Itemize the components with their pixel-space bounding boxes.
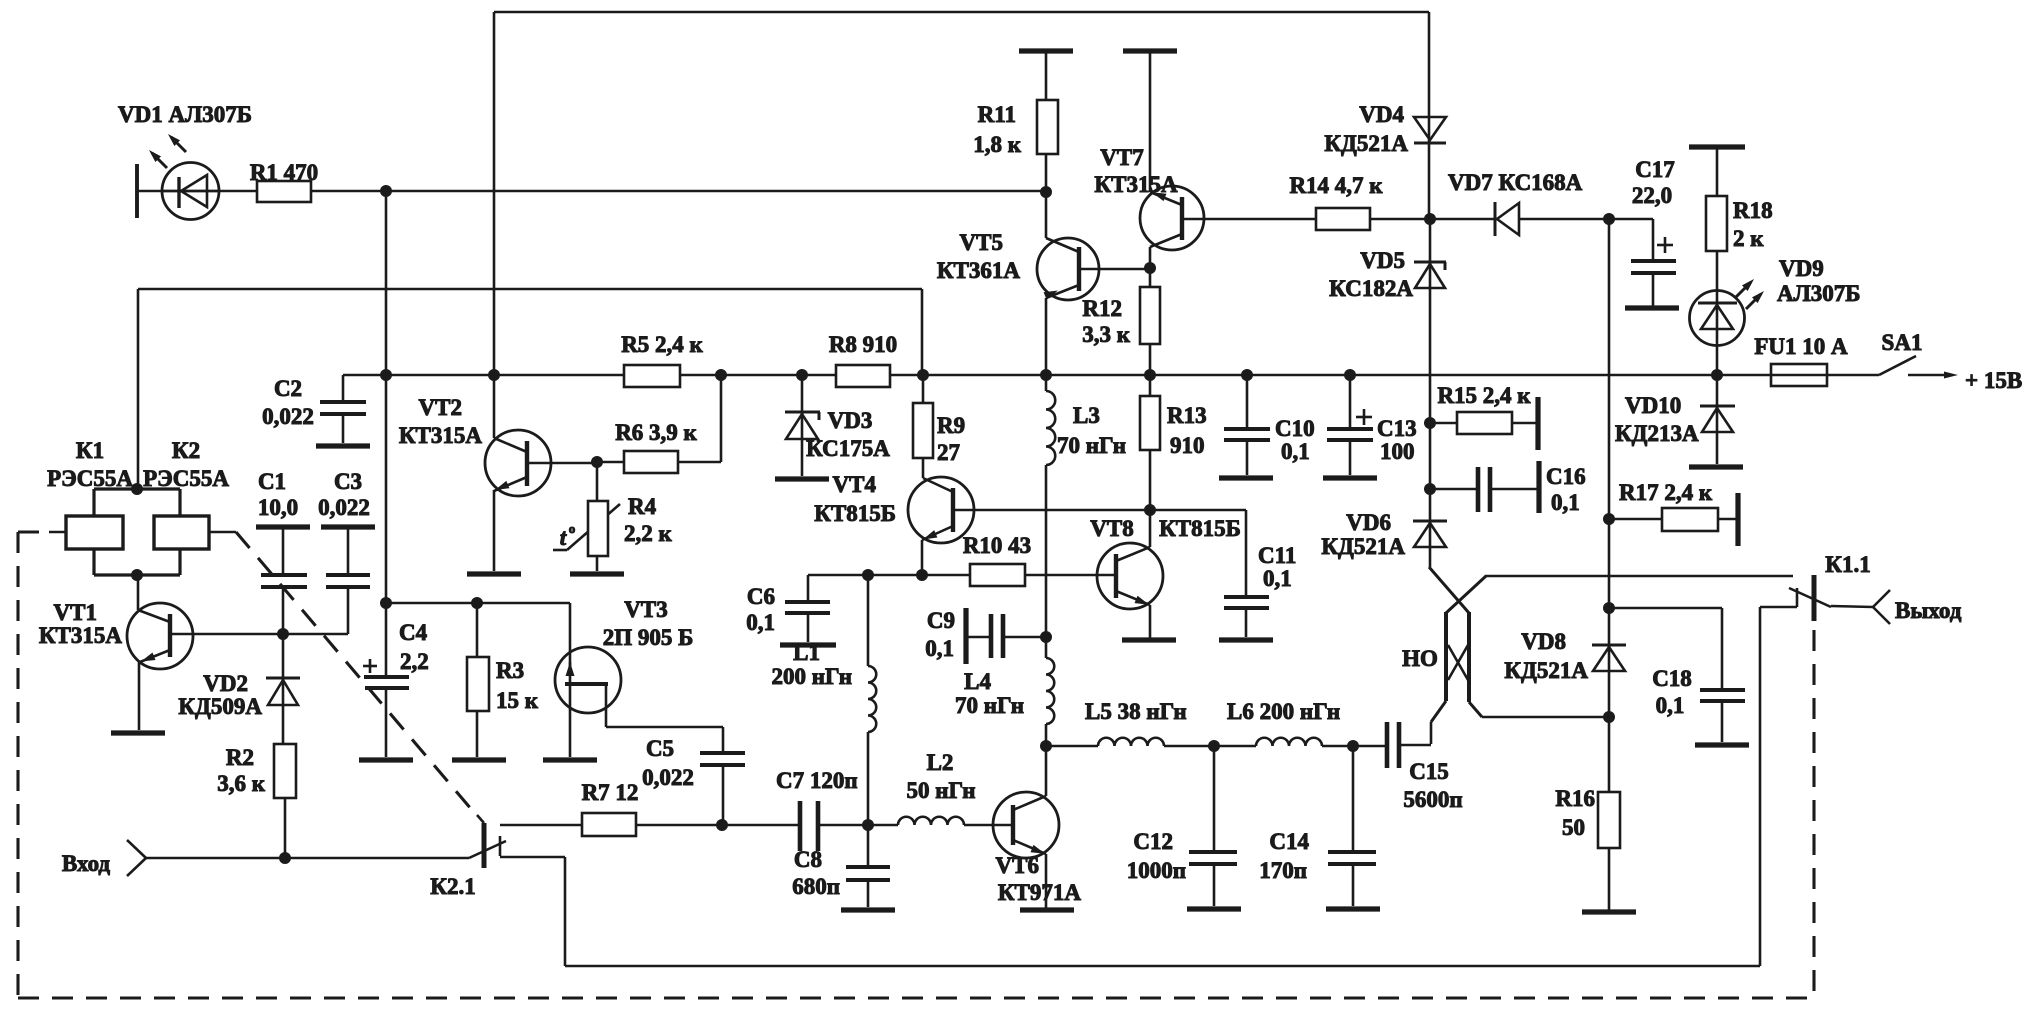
svg-text:VD9: VD9	[1779, 256, 1824, 281]
svg-text:КТ815Б: КТ815Б	[1159, 516, 1241, 541]
svg-text:VT1: VT1	[54, 600, 97, 625]
svg-text:КТ315А: КТ315А	[39, 623, 123, 648]
svg-text:VD5: VD5	[1360, 248, 1405, 273]
svg-text:R14 4,7 к: R14 4,7 к	[1289, 173, 1383, 198]
svg-text:R17 2,4 к: R17 2,4 к	[1619, 480, 1713, 505]
svg-text:0,1: 0,1	[1551, 490, 1580, 515]
svg-text:t: t	[560, 525, 567, 550]
svg-text:РЭС55А: РЭС55А	[47, 466, 133, 491]
svg-text:VT6: VT6	[996, 853, 1039, 878]
svg-text:C9: C9	[927, 608, 955, 633]
svg-text:АЛ307Б: АЛ307Б	[1777, 281, 1860, 306]
svg-text:0,022: 0,022	[262, 404, 314, 429]
svg-text:22,0: 22,0	[1632, 183, 1672, 208]
svg-text:R15 2,4 к: R15 2,4 к	[1437, 383, 1531, 408]
svg-text:70 нГн: 70 нГн	[1057, 433, 1126, 458]
svg-text:VT7: VT7	[1100, 145, 1143, 170]
svg-text:R10 43: R10 43	[963, 533, 1031, 558]
svg-text:VD8: VD8	[1521, 629, 1566, 654]
svg-text:+ 15В: + 15В	[1965, 368, 2022, 393]
svg-text:0,022: 0,022	[318, 495, 370, 520]
svg-text:R1 470: R1 470	[250, 160, 318, 185]
svg-text:R13: R13	[1167, 403, 1207, 428]
svg-text:VD4: VD4	[1359, 102, 1404, 127]
svg-text:VD10: VD10	[1625, 393, 1681, 418]
svg-text:VD2: VD2	[203, 671, 248, 696]
svg-text:R12: R12	[1082, 296, 1122, 321]
svg-text:C16: C16	[1546, 464, 1586, 489]
svg-text:КТ315А: КТ315А	[1094, 172, 1178, 197]
svg-text:680п: 680п	[792, 874, 840, 899]
svg-text:КД521А: КД521А	[1321, 534, 1405, 559]
svg-text:C7 120п: C7 120п	[776, 768, 858, 793]
svg-text:L5 38 нГн: L5 38 нГн	[1085, 699, 1187, 724]
svg-text:C17: C17	[1635, 157, 1675, 182]
svg-text:0,1: 0,1	[1656, 693, 1685, 718]
svg-text:C12: C12	[1133, 829, 1173, 854]
svg-text:50: 50	[1562, 815, 1585, 840]
svg-text:К2.1: К2.1	[430, 874, 475, 899]
svg-text:L4: L4	[964, 669, 991, 694]
svg-text:C18: C18	[1652, 666, 1692, 691]
svg-text:L6 200 нГн: L6 200 нГн	[1227, 699, 1340, 724]
svg-text:КТ361А: КТ361А	[937, 258, 1021, 283]
svg-text:C2: C2	[274, 376, 302, 401]
svg-text:R18: R18	[1733, 198, 1773, 223]
svg-text:VT2: VT2	[419, 395, 462, 420]
svg-text:3,3 к: 3,3 к	[1082, 322, 1131, 347]
svg-text:0,1: 0,1	[746, 610, 775, 635]
svg-text:C5: C5	[646, 736, 674, 761]
svg-text:НО: НО	[1402, 646, 1438, 671]
svg-text:C3: C3	[334, 469, 362, 494]
svg-text:VT8: VT8	[1090, 516, 1133, 541]
svg-text:VT3: VT3	[624, 597, 667, 622]
svg-text:70 нГн: 70 нГн	[955, 693, 1024, 718]
svg-text:R16: R16	[1555, 786, 1595, 811]
svg-text:Вход: Вход	[62, 851, 110, 876]
svg-text:R2: R2	[226, 745, 254, 770]
svg-text:C13: C13	[1377, 416, 1417, 441]
svg-text:R11: R11	[978, 102, 1016, 127]
svg-text:50 нГн: 50 нГн	[906, 778, 975, 803]
svg-text:27: 27	[937, 440, 960, 465]
svg-text:VT4: VT4	[833, 472, 877, 497]
svg-text:C11: C11	[1258, 543, 1296, 568]
svg-text:КД521А: КД521А	[1324, 131, 1408, 156]
svg-text:910: 910	[1170, 433, 1205, 458]
svg-text:2,2 к: 2,2 к	[624, 521, 673, 546]
svg-text:КТ815Б: КТ815Б	[814, 501, 896, 526]
svg-text:2,2: 2,2	[400, 649, 429, 674]
svg-text:R9: R9	[937, 413, 965, 438]
svg-text:170п: 170п	[1259, 858, 1307, 883]
svg-text:К2: К2	[172, 438, 200, 463]
svg-text:0,1: 0,1	[925, 636, 954, 661]
svg-text:КТ971А: КТ971А	[998, 880, 1082, 905]
svg-text:L1: L1	[793, 640, 820, 665]
svg-text:КС182А: КС182А	[1329, 276, 1413, 301]
svg-text:1000п: 1000п	[1127, 858, 1186, 883]
svg-text:0,1: 0,1	[1281, 439, 1310, 464]
svg-text:VD3: VD3	[828, 408, 873, 433]
svg-text:R4: R4	[628, 494, 657, 519]
svg-text:КД213А: КД213А	[1615, 421, 1699, 446]
svg-text:100: 100	[1380, 439, 1415, 464]
svg-text:К1.1: К1.1	[1825, 552, 1870, 577]
svg-text:КД509А: КД509А	[178, 694, 262, 719]
svg-text:C4: C4	[399, 620, 428, 645]
svg-text:C14: C14	[1269, 829, 1309, 854]
svg-text:SA1: SA1	[1882, 330, 1923, 355]
svg-text:R5 2,4 к: R5 2,4 к	[621, 332, 703, 357]
svg-text:R8 910: R8 910	[829, 332, 897, 357]
svg-text:L2: L2	[927, 750, 954, 775]
svg-text:C6: C6	[747, 584, 775, 609]
svg-text:К1: К1	[76, 438, 104, 463]
svg-text:R7 12: R7 12	[582, 780, 639, 805]
svg-text:VT5: VT5	[960, 230, 1003, 255]
svg-text:2П 905 Б: 2П 905 Б	[603, 625, 694, 650]
svg-text:VD6: VD6	[1346, 510, 1391, 535]
svg-text:R3: R3	[496, 658, 524, 683]
svg-text:5600п: 5600п	[1403, 787, 1462, 812]
svg-text:FU1 10 А: FU1 10 А	[1754, 334, 1848, 359]
svg-text:0,022: 0,022	[642, 765, 694, 790]
svg-text:1,8 к: 1,8 к	[973, 132, 1022, 157]
svg-text:КС175А: КС175А	[806, 436, 890, 461]
svg-text:200 нГн: 200 нГн	[771, 664, 852, 689]
svg-text:L3: L3	[1073, 403, 1100, 428]
svg-text:о: о	[569, 521, 576, 536]
svg-text:15 к: 15 к	[496, 688, 539, 713]
svg-text:C8: C8	[794, 847, 822, 872]
svg-text:0,1: 0,1	[1263, 566, 1292, 591]
svg-text:КТ315А: КТ315А	[399, 423, 483, 448]
svg-text:Выход: Выход	[1895, 598, 1962, 623]
svg-text:C15: C15	[1409, 759, 1449, 784]
svg-text:3,6 к: 3,6 к	[217, 771, 266, 796]
svg-text:2 к: 2 к	[1733, 226, 1764, 251]
svg-text:C10: C10	[1275, 416, 1315, 441]
svg-text:VD1 АЛ307Б: VD1 АЛ307Б	[118, 102, 252, 127]
svg-text:VD7 КС168А: VD7 КС168А	[1448, 170, 1583, 195]
svg-text:R6 3,9 к: R6 3,9 к	[615, 420, 697, 445]
svg-text:КД521А: КД521А	[1504, 658, 1588, 683]
svg-text:РЭС55А: РЭС55А	[143, 466, 229, 491]
svg-text:10,0: 10,0	[258, 495, 298, 520]
svg-text:C1: C1	[258, 469, 286, 494]
